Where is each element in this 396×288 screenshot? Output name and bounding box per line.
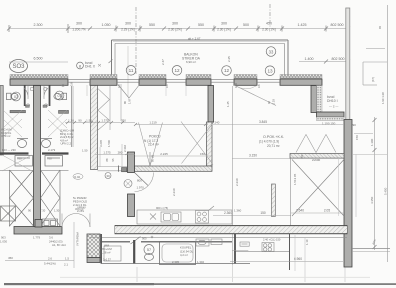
svg-text:300: 300 (221, 22, 227, 26)
svg-text:2.245: 2.245 (160, 152, 168, 156)
svg-text:2.29 (1%): 2.29 (1%) (121, 27, 135, 31)
svg-text:800: 800 (137, 179, 142, 183)
svg-text:802 500: 802 500 (331, 23, 344, 27)
svg-text:1.200.7%: 1.200.7% (72, 27, 86, 31)
svg-text:2x600: 2x600 (312, 158, 321, 162)
svg-text:80: 80 (123, 100, 127, 104)
svg-text:2.05: 2.05 (324, 209, 330, 213)
svg-text:150: 150 (300, 154, 304, 159)
svg-text:90: 90 (353, 123, 357, 127)
svg-text:12: 12 (224, 68, 230, 73)
svg-text:1.90 1.38: 1.90 1.38 (381, 92, 385, 104)
svg-text:40%: 40% (371, 238, 377, 245)
svg-text:2.302: 2.302 (123, 145, 127, 152)
svg-text:823 — 230: 823 — 230 (2, 148, 16, 152)
svg-text:1.500: 1.500 (107, 140, 111, 147)
svg-text:2.360: 2.360 (224, 211, 232, 215)
svg-text:1.5: 1.5 (65, 257, 69, 261)
svg-text:2.30 (1%): 2.30 (1%) (262, 27, 276, 31)
svg-text:3.6: 3.6 (257, 84, 261, 88)
svg-text:8: 8 (79, 63, 82, 68)
svg-text:3,79 m²: 3,79 m² (1, 134, 11, 138)
svg-text:2.30 (2%): 2.30 (2%) (168, 27, 182, 31)
svg-text:2.6: 2.6 (48, 257, 52, 261)
svg-text:4,2 m²: 4,2 m² (180, 253, 188, 257)
svg-text:DH1 X: DH1 X (85, 65, 96, 69)
svg-text:57: 57 (147, 248, 151, 252)
svg-text:5.450: 5.450 (384, 187, 388, 195)
svg-text:2x1.37: 2x1.37 (103, 258, 111, 262)
svg-text:780: 780 (47, 157, 52, 161)
svg-text:(6?): (6?) (371, 77, 375, 82)
svg-text:3.150: 3.150 (249, 154, 257, 158)
svg-text:802 500: 802 500 (332, 57, 345, 61)
svg-text:2.25: 2.25 (227, 56, 231, 62)
svg-text:2.40 +C(L) 150: 2.40 +C(L) 150 (263, 238, 281, 242)
svg-text:1.219: 1.219 (149, 121, 157, 125)
svg-text:1.030: 1.030 (0, 239, 7, 243)
svg-text:O.02: O.02 (74, 175, 81, 179)
svg-text:3.245: 3.245 (99, 140, 103, 147)
svg-text:3.6: 3.6 (165, 84, 169, 88)
svg-text:1.779: 1.779 (33, 236, 40, 240)
svg-text:POKOJ: POKOJ (149, 135, 161, 139)
svg-text:1.302: 1.302 (197, 260, 204, 264)
svg-text:UPN 2.2: UPN 2.2 (61, 142, 72, 146)
svg-text:12: 12 (174, 68, 180, 73)
svg-text:2.30 (1%): 2.30 (1%) (217, 27, 231, 31)
svg-text:4.350: 4.350 (370, 196, 374, 204)
svg-text:1.97: 1.97 (128, 98, 132, 104)
svg-text:1.375: 1.375 (103, 151, 111, 155)
svg-text:150: 150 (260, 211, 266, 215)
svg-text:alt + 2.67: alt + 2.67 (188, 37, 201, 41)
svg-text:1.050: 1.050 (102, 23, 111, 27)
svg-text:1.375: 1.375 (101, 119, 109, 123)
svg-text:7.30: 7.30 (40, 209, 46, 213)
svg-text:07: 07 (58, 94, 62, 98)
svg-text:2.1: 2.1 (64, 263, 68, 267)
svg-text:2-179: 2-179 (48, 148, 56, 152)
svg-text:DH10 I: DH10 I (327, 99, 338, 103)
svg-text:2.19: 2.19 (272, 99, 276, 105)
svg-text:1.190: 1.190 (370, 138, 374, 146)
svg-text:95: 95 (111, 158, 115, 161)
svg-text:2.47: 2.47 (161, 59, 165, 65)
svg-text:2.300: 2.300 (34, 23, 43, 27)
svg-text:1.513 95: 1.513 95 (293, 173, 297, 185)
svg-text:11: 11 (129, 68, 134, 73)
svg-text:300: 300 (172, 22, 178, 26)
svg-text:60: 60 (267, 100, 271, 104)
svg-text:240: 240 (215, 121, 220, 125)
svg-text:300: 300 (76, 22, 82, 26)
svg-text:33: 33 (269, 49, 274, 54)
svg-text:900: 900 (142, 236, 147, 240)
svg-text:UPRAV: UPRAV (77, 206, 86, 210)
svg-text:450: 450 (8, 256, 13, 260)
svg-text:1.400: 1.400 (305, 57, 314, 61)
svg-text:3.845: 3.845 (259, 120, 267, 124)
svg-text:— ≡ —: — ≡ — (329, 105, 338, 109)
svg-text:90: 90 (78, 119, 82, 123)
svg-text:20,71 m²: 20,71 m² (267, 144, 280, 148)
svg-text:A1, B= dmt: A1, B= dmt (52, 243, 66, 247)
svg-text:5.44(1%): 5.44(1%) (44, 262, 56, 266)
svg-text:1.50: 1.50 (82, 148, 88, 152)
svg-text:22,4 m²: 22,4 m² (148, 143, 159, 147)
svg-text:1.20: 1.20 (68, 119, 74, 123)
svg-text:350: 350 (121, 119, 126, 123)
svg-text:45: 45 (378, 26, 382, 29)
svg-text:780: 780 (17, 157, 22, 161)
svg-text:1.360: 1.360 (234, 209, 242, 213)
svg-text:SO3: SO3 (12, 64, 25, 70)
svg-text:2x BS: 2x BS (77, 209, 84, 213)
svg-text:500: 500 (243, 23, 249, 27)
svg-text:1,28 m²: 1,28 m² (101, 250, 111, 254)
svg-text:30: 30 (106, 174, 110, 178)
svg-text:2.230: 2.230 (172, 188, 176, 196)
svg-text:O.POK.+K.K.: O.POK.+K.K. (263, 135, 284, 139)
svg-text:3.6: 3.6 (70, 82, 74, 86)
svg-text:2.230: 2.230 (235, 178, 239, 186)
svg-text:450: 450 (266, 22, 272, 26)
svg-text:60 (9): 60 (9) (151, 155, 155, 162)
svg-text:550: 550 (149, 23, 155, 27)
svg-text:150: 150 (200, 152, 205, 156)
svg-text:88: 88 (105, 158, 109, 161)
svg-text:(1) 4.070 (1.9): (1) 4.070 (1.9) (259, 140, 279, 144)
svg-text:6,90 m²: 6,90 m² (186, 60, 196, 64)
svg-text:1.190 150: 1.190 150 (322, 122, 336, 126)
svg-text:300: 300 (125, 22, 131, 26)
svg-text:07: 07 (14, 95, 18, 99)
svg-text:1.45: 1.45 (226, 101, 230, 107)
svg-text:2.640: 2.640 (296, 209, 304, 213)
svg-text:550: 550 (198, 23, 204, 27)
svg-text:900 x (75): 900 x (75) (156, 206, 168, 210)
svg-text:90: 90 (28, 209, 31, 213)
svg-text:VYTAPENA: VYTAPENA (76, 232, 80, 246)
svg-text:13: 13 (267, 68, 273, 73)
svg-text:1.425: 1.425 (298, 23, 307, 27)
svg-text:2.305: 2.305 (172, 260, 179, 264)
svg-text:1.50: 1.50 (86, 119, 92, 123)
svg-text:1.30: 1.30 (54, 209, 60, 213)
svg-text:150: 150 (355, 135, 359, 140)
svg-text:6.500: 6.500 (34, 57, 43, 61)
svg-text:1.970: 1.970 (137, 186, 145, 190)
svg-text:1.10: 1.10 (305, 239, 309, 245)
